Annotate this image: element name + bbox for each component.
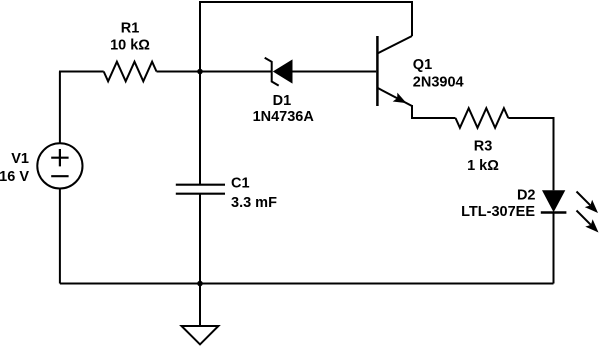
- wire: V1 bottom lead down: [59, 189, 61, 284]
- wire: down to LED D2: [553, 117, 555, 190]
- transistor Q1 emitter arrowhead: [393, 93, 409, 108]
- svg-text:Q1: Q1: [413, 57, 432, 73]
- zener diode D1 triangle: [273, 59, 293, 83]
- svg-text:D1: D1: [273, 93, 292, 109]
- wire: emitter corner to R3 left: [411, 117, 456, 119]
- node B junction dot (bottom): [197, 281, 203, 287]
- svg-text:10 kΩ: 10 kΩ: [110, 38, 150, 54]
- voltage source V1 circle: [37, 143, 82, 188]
- wire: node A up to top-left corner: [199, 2, 201, 72]
- svg-text:R1: R1: [121, 21, 140, 37]
- svg-text:16 V: 16 V: [0, 169, 29, 185]
- resistor R1: [104, 62, 157, 82]
- wire: R3 right to top-right corner: [508, 117, 553, 119]
- svg-text:D2: D2: [517, 188, 536, 204]
- wire: top horizontal (collector net): [199, 1, 412, 3]
- wire: corner to R1 left: [59, 71, 104, 73]
- transistor Q1 collector diagonal: [377, 36, 412, 54]
- LED D2 cathode bar: [541, 211, 567, 214]
- svg-text:LTL-307EE: LTL-307EE: [461, 204, 535, 220]
- svg-text:C1: C1: [231, 176, 250, 192]
- svg-text:1N4736A: 1N4736A: [253, 109, 315, 125]
- transistor Q1 base bar: [376, 36, 379, 106]
- LED D2 light arrow 1: [577, 192, 600, 217]
- ground symbol: [182, 326, 219, 344]
- wire: top-right corner down to Q1 collector: [411, 1, 413, 36]
- wire: emitter down to R3 level: [411, 105, 413, 118]
- capacitor C1 top plate: [176, 184, 225, 186]
- wire: C1 down to bottom node: [199, 194, 201, 284]
- node A junction dot: [197, 69, 203, 75]
- svg-text:3.3 mF: 3.3 mF: [231, 195, 277, 211]
- svg-text:R3: R3: [474, 139, 493, 155]
- LED D2 light arrow 2: [577, 211, 600, 237]
- transistor Q1 emitter diagonal: [377, 88, 412, 106]
- svg-text:1 kΩ: 1 kΩ: [467, 158, 499, 174]
- voltage source V1 minus sign: [51, 175, 68, 177]
- wire: node A down to capacitor C1: [199, 72, 201, 185]
- capacitor C1 bottom plate: [176, 193, 225, 195]
- wire: node A to zener D1: [200, 71, 271, 73]
- svg-text:2N3904: 2N3904: [413, 75, 464, 91]
- wire: LED down to bottom-right corner: [553, 213, 555, 284]
- wire: R1 right to node A: [157, 71, 201, 73]
- wire: V1 top lead up to R1 level: [59, 72, 61, 144]
- svg-text:V1: V1: [11, 151, 29, 167]
- resistor R3: [456, 108, 509, 128]
- wire: bottom node down to ground: [199, 284, 201, 327]
- wire: bottom horizontal rail: [60, 283, 554, 285]
- wire: D1 to Q1 base: [293, 71, 377, 73]
- LED D2 triangle: [542, 190, 565, 212]
- voltage source V1 plus sign: [51, 149, 68, 166]
- zener diode D1 cathode bar with bends: [265, 58, 279, 86]
